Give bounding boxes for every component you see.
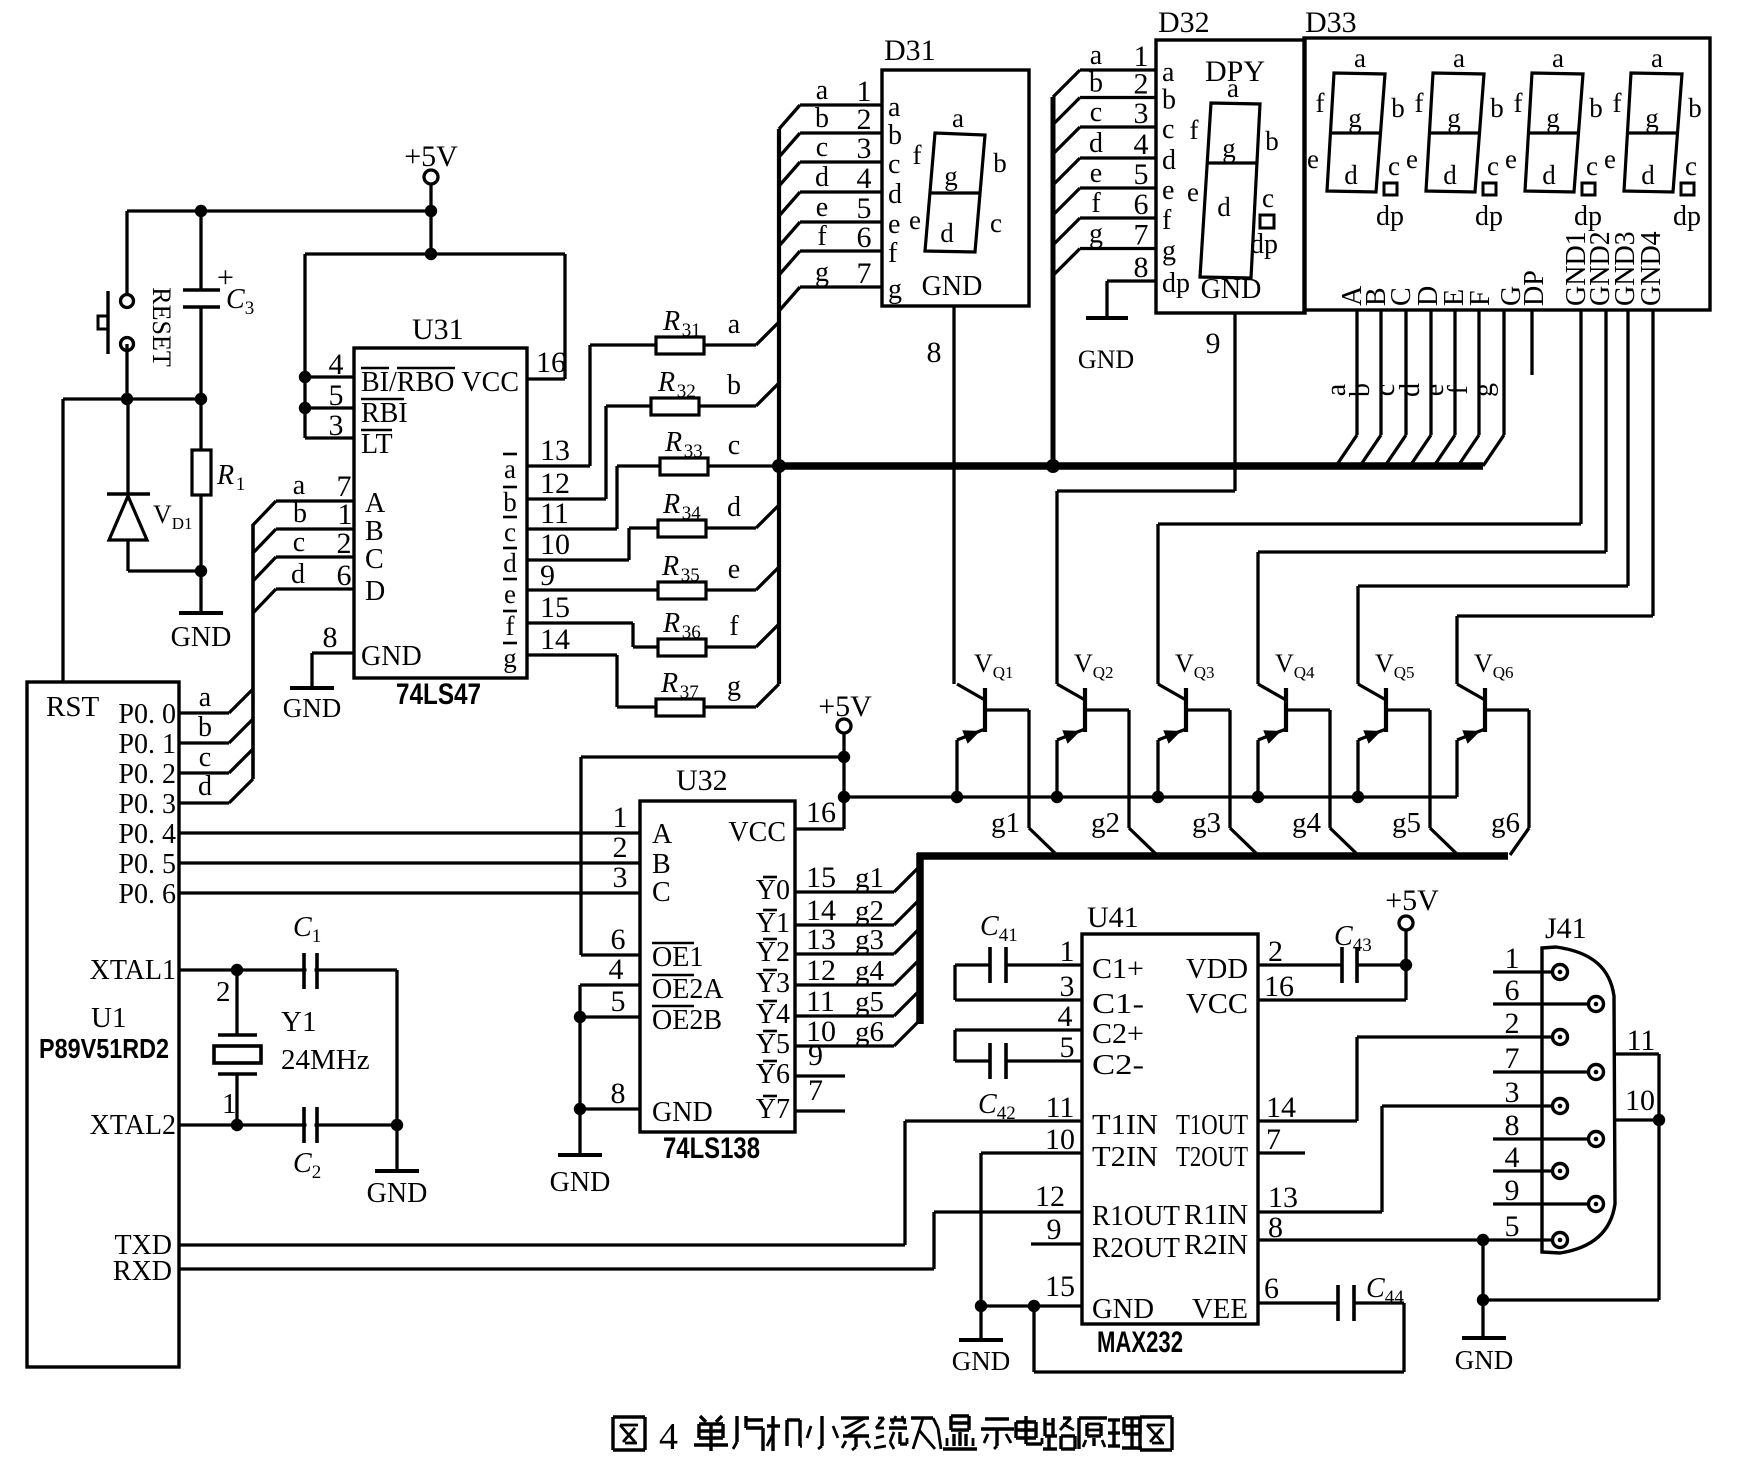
svg-text:a: a — [1651, 43, 1663, 73]
wire D31 pin8 (GND) to VQ1 collector — [952, 306, 955, 684]
svg-text:+5V: +5V — [1385, 884, 1439, 917]
svg-text:D31: D31 — [884, 34, 936, 67]
svg-text:Q3: Q3 — [1194, 663, 1215, 682]
svg-text:P0. 4: P0. 4 — [118, 819, 176, 850]
svg-text:GND: GND — [652, 1097, 713, 1128]
svg-text:Q6: Q6 — [1493, 663, 1514, 682]
svg-text:c: c — [728, 430, 740, 461]
svg-text:7: 7 — [1266, 1123, 1281, 1156]
capacitor C44 — [1258, 1301, 1338, 1304]
svg-text:a: a — [1162, 57, 1175, 88]
svg-text:g: g — [1645, 103, 1659, 133]
svg-text:15: 15 — [540, 591, 570, 624]
svg-text:Y3: Y3 — [756, 968, 790, 999]
svg-text:4: 4 — [329, 348, 344, 381]
svg-text:GND: GND — [922, 271, 983, 302]
svg-text:37: 37 — [680, 682, 699, 703]
svg-text:b: b — [1089, 68, 1103, 99]
display D32 — [1156, 40, 1305, 313]
wire VEE return loop — [1402, 1303, 1405, 1372]
svg-text:R2IN: R2IN — [1184, 1230, 1248, 1261]
svg-text:c: c — [293, 527, 305, 558]
wire D31 pin 6 (f) — [779, 251, 800, 275]
svg-text:c: c — [1487, 151, 1499, 181]
svg-text:14: 14 — [540, 623, 570, 656]
wire P0.0 — [179, 711, 229, 714]
wire D32 pin 1 (a) — [1053, 70, 1080, 97]
J41 pin 9 — [1589, 1197, 1604, 1212]
svg-text:J41: J41 — [1545, 912, 1587, 945]
svg-text:3: 3 — [613, 861, 628, 894]
svg-text:OE1: OE1 — [652, 942, 703, 973]
svg-text:b: b — [1589, 93, 1603, 123]
resistor R1 — [199, 399, 202, 450]
svg-text:74LS47: 74LS47 — [396, 678, 481, 711]
wire D32 pin9 (GND) down — [1233, 313, 1236, 491]
svg-text:12: 12 — [1035, 1180, 1065, 1213]
svg-text:43: 43 — [1353, 935, 1372, 956]
svg-text:B: B — [365, 516, 384, 547]
svg-text:U41: U41 — [1087, 901, 1139, 934]
transistor VQ5 — [1356, 586, 1359, 684]
svg-text:13: 13 — [1268, 1181, 1298, 1214]
svg-text:C1+: C1+ — [1092, 954, 1144, 985]
wire R34 to segment bus — [756, 505, 779, 528]
wire D33 GND4 to VQ6 — [1651, 310, 1654, 616]
svg-text:14: 14 — [1266, 1091, 1296, 1124]
power +5V symbol (top) — [424, 170, 438, 184]
svg-text:a: a — [816, 75, 829, 106]
svg-text:dp: dp — [1376, 201, 1404, 232]
svg-text:dp: dp — [1673, 201, 1701, 232]
svg-text:dp: dp — [1162, 268, 1190, 299]
svg-text:11: 11 — [806, 985, 835, 1018]
svg-text:d: d — [1217, 192, 1231, 222]
svg-text:6: 6 — [1134, 188, 1149, 221]
svg-text:c: c — [1162, 114, 1174, 145]
svg-text:a: a — [199, 682, 212, 713]
svg-text:RBI: RBI — [361, 398, 408, 429]
svg-text:6: 6 — [1264, 1272, 1279, 1305]
svg-text:R2OUT: R2OUT — [1092, 1233, 1180, 1264]
wire U31 pin13 to R31 — [527, 464, 590, 467]
svg-text:GND: GND — [367, 1178, 428, 1209]
svg-text:1: 1 — [312, 926, 322, 947]
svg-text:4: 4 — [1058, 1000, 1073, 1033]
transistor VQ2 — [1055, 491, 1058, 684]
svg-text:P0. 1: P0. 1 — [118, 729, 176, 760]
svg-text:4: 4 — [1505, 1141, 1520, 1174]
resistor R35 — [658, 582, 706, 599]
svg-text:e: e — [1406, 144, 1418, 174]
ground below U41 — [979, 1306, 982, 1340]
svg-text:a: a — [1552, 43, 1564, 73]
svg-text:XTAL2: XTAL2 — [90, 1110, 176, 1141]
svg-text:a: a — [1227, 73, 1239, 103]
wire U32 pin2 B from P0.5 — [179, 861, 640, 864]
svg-text:36: 36 — [682, 622, 701, 643]
svg-text:A: A — [365, 488, 386, 519]
wire R2OUT stub — [1031, 1242, 1082, 1245]
svg-text:GND4: GND4 — [1636, 231, 1667, 306]
svg-text:f: f — [1613, 88, 1622, 118]
J41 shield pin 10 — [1615, 1118, 1659, 1121]
wire U32 Y1 (g2) to bus — [795, 923, 894, 926]
IC U41 MAX232 — [1082, 934, 1258, 1324]
svg-text:g2: g2 — [1091, 807, 1120, 839]
wire U31 lamp-test tie to +5V — [303, 254, 306, 438]
svg-text:74LS138: 74LS138 — [663, 1132, 760, 1165]
svg-text:c: c — [1090, 97, 1102, 128]
J41 pin 8 — [1589, 1132, 1604, 1147]
svg-text:e: e — [1162, 175, 1174, 206]
wire bus to U31 D — [253, 589, 276, 613]
wire P0.2 — [179, 771, 229, 774]
wire U32 ground tie — [578, 985, 581, 1155]
node segment bus vertical (to D32) — [1051, 97, 1056, 466]
svg-text:33: 33 — [684, 441, 703, 462]
wire U32 Y4 (g5) to bus — [795, 1014, 894, 1017]
svg-text:dp: dp — [1475, 201, 1503, 232]
capacitor C3 — [199, 211, 202, 290]
svg-text:g: g — [1089, 219, 1103, 250]
svg-text:9: 9 — [1047, 1213, 1062, 1246]
svg-text:34: 34 — [682, 503, 702, 524]
svg-text:F: F — [1465, 290, 1496, 306]
wire D32 pin 6 (f) — [1053, 218, 1080, 245]
svg-text:VCC: VCC — [1186, 989, 1248, 1020]
display D31 — [882, 70, 1029, 306]
svg-text:g5: g5 — [855, 986, 884, 1018]
svg-text:3: 3 — [245, 298, 255, 319]
svg-text:a: a — [293, 470, 306, 501]
svg-text:5: 5 — [611, 985, 626, 1018]
svg-text:d: d — [940, 218, 954, 248]
ground below R1 — [199, 571, 202, 613]
svg-text:3: 3 — [1505, 1076, 1520, 1109]
svg-text:BI/RBO: BI/RBO — [361, 367, 454, 398]
digit 1 glyph — [1327, 73, 1385, 192]
wire D31 pin 2 (b) — [779, 133, 800, 157]
capacitor C41 — [1006, 963, 1082, 966]
svg-text:+5V: +5V — [818, 690, 872, 723]
svg-text:44: 44 — [1385, 1287, 1405, 1308]
svg-text:f: f — [888, 238, 898, 269]
IC U32 74LS138 — [640, 801, 795, 1132]
svg-text:V: V — [1474, 649, 1493, 678]
J41 pin 5 — [1553, 1233, 1568, 1248]
svg-text:R: R — [660, 668, 678, 699]
svg-text:12: 12 — [540, 467, 570, 500]
svg-text:Q4: Q4 — [1294, 663, 1315, 682]
svg-text:g: g — [888, 274, 902, 305]
svg-text:V: V — [1275, 649, 1294, 678]
svg-text:P0. 3: P0. 3 — [118, 789, 176, 820]
J41 pin 1 — [1553, 965, 1568, 980]
dp square D32 — [1260, 215, 1274, 228]
svg-text:D: D — [365, 576, 385, 607]
wire D32 pin 5 (e) — [1053, 188, 1080, 215]
wire D31 pin 1 (a) — [779, 105, 800, 129]
svg-text:e: e — [1090, 158, 1102, 189]
svg-text:24MHz: 24MHz — [281, 1044, 370, 1076]
svg-text:f: f — [506, 611, 515, 641]
svg-text:d: d — [815, 162, 829, 193]
svg-text:Q2: Q2 — [1093, 663, 1114, 682]
svg-text:15: 15 — [1045, 1270, 1075, 1303]
svg-text:OE2A: OE2A — [652, 974, 724, 1005]
svg-text:8: 8 — [323, 621, 338, 654]
svg-text:g4: g4 — [1292, 807, 1322, 839]
wire D31 pin 5 (e) — [779, 222, 800, 246]
svg-text:e: e — [888, 209, 900, 240]
wire VD1 to R1 bottom — [128, 569, 201, 572]
wire P0.1 — [179, 741, 229, 744]
svg-text:d: d — [888, 179, 902, 210]
svg-text:Y7: Y7 — [756, 1094, 790, 1125]
wire U32 Y5 (g6) to bus — [795, 1044, 894, 1047]
svg-text:f: f — [817, 221, 827, 252]
svg-text:1: 1 — [613, 801, 628, 834]
wire U32 Y2 (g3) to bus — [795, 952, 894, 955]
pushbutton RESET — [121, 295, 134, 308]
wire U32 Y7 stub — [795, 1109, 845, 1112]
svg-text:9: 9 — [808, 1039, 823, 1072]
svg-text:f: f — [913, 140, 922, 170]
wire bus to U31 B — [253, 529, 276, 553]
svg-text:a: a — [1453, 43, 1465, 73]
resistor R37 — [656, 699, 704, 716]
svg-text:b: b — [1162, 85, 1176, 116]
svg-text:c: c — [1685, 151, 1697, 181]
svg-text:32: 32 — [677, 381, 696, 402]
svg-text:V: V — [1175, 649, 1194, 678]
resistor R34 — [658, 520, 706, 537]
wire U31 pin14 to R37 — [527, 653, 617, 656]
svg-text:d: d — [198, 771, 212, 802]
wire RST to U1 — [61, 399, 64, 682]
wire R33 to segment bus — [708, 464, 779, 467]
svg-text:D1: D1 — [172, 514, 193, 533]
svg-text:b: b — [993, 148, 1007, 178]
power +5V symbol (right) — [1399, 916, 1413, 930]
svg-text:11: 11 — [540, 497, 569, 530]
svg-text:9: 9 — [1505, 1174, 1520, 1207]
svg-text:d: d — [727, 492, 741, 523]
crystal Y1 24MHz — [235, 970, 238, 1035]
svg-text:b: b — [727, 370, 741, 401]
wire U31 pin4 BI/RBO — [305, 375, 354, 378]
svg-text:1: 1 — [1505, 942, 1520, 975]
svg-text:D32: D32 — [1158, 6, 1210, 39]
svg-text:R1OUT: R1OUT — [1092, 1201, 1180, 1232]
svg-text:g6: g6 — [855, 1016, 884, 1048]
svg-text:d: d — [1641, 160, 1655, 190]
wire RESET top — [125, 211, 128, 301]
wire D33 pin F to segment bus — [1477, 310, 1480, 435]
svg-text:XTAL1: XTAL1 — [90, 955, 176, 986]
svg-text:R: R — [661, 551, 679, 582]
svg-text:g: g — [1546, 103, 1560, 133]
svg-text:5: 5 — [329, 379, 344, 412]
svg-text:R: R — [662, 608, 680, 639]
wire U32 pin5 OE2B — [580, 1015, 640, 1018]
ground below D32 dp — [1086, 316, 1128, 320]
ground below J41 — [1462, 1336, 1506, 1340]
svg-text:C: C — [365, 544, 384, 575]
svg-text:2: 2 — [312, 1162, 322, 1183]
svg-text:T1IN: T1IN — [1092, 1110, 1158, 1141]
svg-text:Y0: Y0 — [756, 875, 790, 906]
svg-text:C2+: C2+ — [1092, 1019, 1144, 1050]
svg-text:d: d — [291, 559, 305, 590]
svg-text:b: b — [1265, 126, 1279, 156]
wire U31 pin8 GND — [312, 651, 354, 654]
wire D32 pin 4 (d) — [1053, 158, 1080, 185]
svg-text:c: c — [199, 742, 211, 773]
svg-text:10: 10 — [1625, 1084, 1655, 1117]
svg-text:7: 7 — [1505, 1042, 1520, 1075]
wire VCC pin16 — [1258, 998, 1406, 1001]
svg-text:9: 9 — [540, 559, 555, 592]
svg-text:d: d — [1542, 160, 1556, 190]
wire U41 GND pin15 — [981, 1304, 1082, 1307]
svg-text:5: 5 — [1134, 158, 1149, 191]
svg-text:13: 13 — [540, 434, 570, 467]
svg-text:g4: g4 — [855, 955, 885, 987]
svg-text:C: C — [652, 877, 671, 908]
svg-text:g: g — [1447, 103, 1461, 133]
svg-text:R: R — [657, 367, 675, 398]
svg-text:V: V — [1074, 649, 1093, 678]
svg-text:b: b — [888, 120, 902, 151]
svg-text:g1: g1 — [855, 862, 884, 894]
svg-text:8: 8 — [611, 1077, 626, 1110]
svg-text:b: b — [1391, 93, 1405, 123]
svg-text:7: 7 — [1134, 219, 1149, 252]
svg-text:b: b — [1688, 93, 1702, 123]
svg-text:16: 16 — [1264, 970, 1294, 1003]
svg-text:10: 10 — [1045, 1123, 1075, 1156]
svg-text:g: g — [1222, 133, 1236, 163]
svg-text:g: g — [1162, 236, 1176, 267]
svg-text:c: c — [990, 208, 1002, 238]
wire U32 Y0 (g1) to bus — [795, 890, 894, 893]
svg-text:C: C — [978, 1089, 997, 1120]
svg-text:V: V — [1375, 649, 1394, 678]
svg-text:35: 35 — [681, 565, 700, 586]
wire U32 pin8 GND — [580, 1107, 640, 1110]
svg-text:15: 15 — [806, 861, 836, 894]
digit 3 glyph — [1525, 73, 1583, 192]
wire D33 GND1 to VQ3 — [1579, 310, 1582, 524]
svg-text:GND: GND — [283, 693, 342, 723]
svg-text:A: A — [652, 819, 673, 850]
svg-text:2: 2 — [216, 976, 231, 1008]
svg-text:C: C — [980, 911, 999, 942]
svg-text:c: c — [504, 517, 516, 547]
wire D31 pin 7 (g) — [779, 287, 800, 311]
svg-text:GND: GND — [1092, 1294, 1154, 1325]
svg-text:7: 7 — [857, 257, 872, 290]
svg-text:GND: GND — [171, 622, 232, 653]
resistor R31 — [656, 337, 704, 354]
svg-text:13: 13 — [806, 923, 836, 956]
svg-text:C: C — [293, 1148, 312, 1179]
capacitor C42 — [955, 1028, 1082, 1031]
svg-text:g: g — [944, 161, 958, 191]
svg-text:g3: g3 — [855, 924, 884, 956]
transistor VQ3 — [1156, 524, 1159, 684]
svg-text:a: a — [952, 103, 964, 133]
svg-text:V: V — [153, 500, 172, 529]
svg-text:6: 6 — [611, 923, 626, 956]
wire shield pins to ground — [1657, 1054, 1660, 1300]
svg-text:10: 10 — [540, 528, 570, 561]
wire D33 pin G to segment bus — [1502, 310, 1505, 435]
svg-text:a: a — [1354, 43, 1366, 73]
svg-text:C2-: C2- — [1092, 1050, 1144, 1081]
svg-text:VEE: VEE — [1192, 1294, 1248, 1325]
capacitor C43 — [1258, 963, 1342, 966]
svg-text:R: R — [662, 489, 680, 520]
svg-text:e: e — [504, 579, 516, 609]
svg-text:c: c — [1586, 151, 1598, 181]
svg-text:GND: GND — [550, 1167, 611, 1198]
svg-text:g1: g1 — [991, 807, 1020, 839]
svg-text:C: C — [1366, 1273, 1385, 1304]
wire D32 pin 7 (g) — [1053, 249, 1080, 276]
wire D32 GND pin9 to VQ2 — [1057, 489, 1235, 492]
svg-text:2: 2 — [1505, 1007, 1520, 1040]
node g-bus horizontal (thick) — [917, 852, 1508, 860]
svg-text:OE2B: OE2B — [652, 1005, 722, 1036]
wire U32 VCC pin16 — [795, 827, 844, 830]
svg-text:g: g — [503, 643, 517, 673]
wire P0.3 — [179, 801, 229, 804]
wire XTAL2 — [179, 1123, 397, 1126]
J41 pin 3 — [1553, 1099, 1568, 1114]
node segment bus vertical (to D31) — [777, 129, 781, 684]
svg-text:a: a — [888, 92, 901, 123]
svg-text:7: 7 — [808, 1074, 823, 1107]
wire D33 pin C to segment bus — [1404, 310, 1407, 435]
wire U31 pin3 LT — [305, 436, 354, 439]
wire TXD to T1IN — [179, 1243, 905, 1246]
svg-text:RESET: RESET — [147, 287, 176, 367]
svg-text:C: C — [226, 284, 245, 315]
svg-text:g: g — [727, 671, 741, 702]
svg-text:5: 5 — [1505, 1210, 1520, 1243]
svg-text:LT: LT — [361, 429, 393, 460]
svg-text:d: d — [1443, 160, 1457, 190]
svg-text:d: d — [1344, 160, 1358, 190]
wire R37 to segment bus — [756, 684, 779, 707]
wire R35 to segment bus — [756, 567, 779, 590]
svg-text:f: f — [1162, 205, 1172, 236]
transistor VQ4 — [1256, 552, 1259, 684]
wire U31 pin10 to R34 — [527, 558, 629, 561]
svg-text:b: b — [293, 498, 307, 529]
svg-text:16: 16 — [536, 346, 566, 379]
svg-text:g2: g2 — [855, 895, 884, 927]
svg-text:Y1: Y1 — [281, 1006, 316, 1038]
wire D33 DP stub — [1530, 310, 1533, 375]
svg-text:b: b — [198, 712, 212, 743]
wire D33 pin E to segment bus — [1453, 310, 1456, 435]
wire T2OUT stub — [1258, 1151, 1305, 1154]
resistor R33 — [660, 458, 708, 475]
